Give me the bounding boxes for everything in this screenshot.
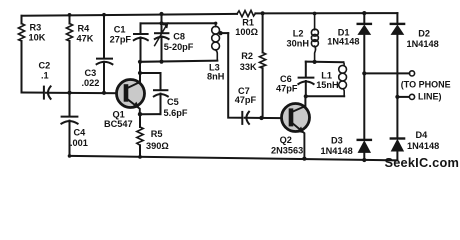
wire D2 to terminal 2 node bbox=[396, 34, 398, 97]
wire terminal 2 bbox=[397, 96, 409, 98]
wire terminal 1 bbox=[364, 72, 409, 74]
wire D4 to bottom rail corner bbox=[396, 151, 398, 161]
wire L3 tap to C7 drop bbox=[221, 32, 229, 34]
wire C5 to emitter wire bbox=[160, 94, 162, 115]
svg-text:.001: .001 bbox=[70, 138, 88, 148]
resistor R2 bbox=[260, 53, 266, 69]
svg-text:Q1: Q1 bbox=[113, 110, 125, 120]
svg-text:30nH: 30nH bbox=[287, 39, 310, 49]
wire top rail right segment bbox=[255, 12, 397, 14]
diode D2 bbox=[391, 24, 404, 34]
svg-text:R4: R4 bbox=[78, 24, 91, 34]
svg-text:R3: R3 bbox=[30, 23, 42, 33]
svg-text:D4: D4 bbox=[416, 130, 429, 140]
transistor Q1 bbox=[117, 80, 145, 115]
wire D1 to terminal node bbox=[363, 34, 365, 74]
wire base node down to C4 bbox=[69, 93, 71, 116]
wire tank bottom bbox=[140, 61, 217, 62]
junction D1 line/terminal 1 wire bbox=[362, 71, 366, 75]
wire R4 branch top bbox=[69, 15, 71, 24]
wire tank2 top bbox=[306, 61, 344, 64]
wire C6 branch upper bbox=[305, 62, 307, 77]
junction C8/tank bottom wire bbox=[159, 60, 163, 64]
svg-text:10K: 10K bbox=[29, 33, 46, 43]
junction C8/top rail bbox=[159, 12, 163, 16]
svg-text:C2: C2 bbox=[39, 61, 51, 71]
junction C3/base wire bbox=[102, 91, 106, 95]
resistor R3 bbox=[18, 24, 24, 42]
capacitor C5 bbox=[154, 90, 168, 96]
svg-text:LINE): LINE) bbox=[418, 91, 442, 101]
wire D3 to bottom rail bbox=[363, 152, 365, 160]
wire C7 vertical drop bbox=[228, 33, 241, 118]
junction Q2 base node bbox=[259, 116, 263, 120]
junction R2/top rail bbox=[261, 11, 265, 15]
resistor R2 drop from rail bbox=[262, 13, 264, 52]
wire C1 lower bbox=[140, 37, 142, 61]
wire tank2 bottom bbox=[306, 95, 344, 97]
wire tank top (node A) bbox=[141, 22, 216, 24]
svg-text:C5: C5 bbox=[167, 97, 179, 107]
junction C3/top rail bbox=[102, 13, 106, 17]
svg-text:390Ω: 390Ω bbox=[146, 141, 169, 151]
wire D1 drop from rail bbox=[363, 13, 365, 24]
resistor R4 bbox=[66, 24, 72, 42]
junction C1/tank bottom wire bbox=[138, 60, 142, 64]
junction R4-C4/base wire bbox=[67, 91, 71, 95]
junction L2 bottom/tank2 top wire bbox=[313, 60, 317, 64]
junction Q2 emitter/bottom rail bbox=[302, 157, 306, 161]
wire D2 drop (rail right corner) bbox=[396, 13, 398, 24]
junction C8/tank top wire bbox=[159, 21, 163, 25]
wire terminal2 node to D4 bbox=[396, 97, 398, 137]
svg-text:.1: .1 bbox=[41, 71, 49, 81]
junction Q2 collector/tank2 bottom wire bbox=[304, 94, 308, 98]
svg-text:1N4148: 1N4148 bbox=[407, 39, 439, 49]
svg-text:R1: R1 bbox=[242, 17, 254, 27]
svg-text:27pF: 27pF bbox=[110, 35, 132, 45]
junction D2 line/terminal 2 wire bbox=[395, 95, 399, 99]
capacitor C2 bbox=[44, 86, 51, 98]
svg-text:1N4148: 1N4148 bbox=[321, 146, 353, 156]
wire C8 rail drop bbox=[161, 14, 163, 32]
svg-text:8nH: 8nH bbox=[207, 72, 225, 82]
wire left rail lower bbox=[21, 41, 23, 93]
svg-text:C8: C8 bbox=[173, 31, 185, 41]
wire Q2 collector riser bbox=[304, 96, 306, 107]
svg-text:5.6pF: 5.6pF bbox=[164, 108, 188, 118]
junction L3 tap bbox=[219, 31, 223, 35]
svg-text:5-20pF: 5-20pF bbox=[164, 42, 194, 52]
diode D1 bbox=[358, 24, 371, 34]
svg-text:R5: R5 bbox=[151, 129, 163, 139]
wire left rail upper bbox=[21, 16, 23, 24]
junction R4/top rail bbox=[68, 13, 72, 17]
trimmer arrow of C8 bbox=[155, 23, 168, 45]
wire base wire right bbox=[46, 92, 124, 95]
capacitor C8 bbox=[155, 33, 169, 39]
capacitor C6 bbox=[298, 78, 313, 84]
resistor R1 bbox=[237, 10, 255, 16]
svg-text:D3: D3 bbox=[331, 135, 343, 145]
svg-text:C4: C4 bbox=[74, 128, 87, 138]
svg-text:2N3563: 2N3563 bbox=[271, 146, 303, 156]
wire C7 to Q2 base bbox=[245, 117, 283, 119]
transistor Q2 bbox=[282, 104, 310, 159]
wire Q1 emitter to C5 bbox=[140, 113, 161, 115]
junction C4/bottom rail corner bbox=[68, 154, 72, 158]
wire C3 branch top bbox=[103, 15, 105, 58]
svg-text:L2: L2 bbox=[293, 29, 304, 39]
junction D1/top rail bbox=[362, 11, 366, 15]
wire C3 to base wire bbox=[103, 62, 105, 93]
svg-text:47pF: 47pF bbox=[235, 95, 257, 105]
terminal circle 2 bbox=[409, 94, 414, 99]
wire top rail left segment bbox=[22, 14, 238, 16]
capacitor C3 bbox=[97, 59, 113, 65]
svg-text:SeekIC.com: SeekIC.com bbox=[385, 155, 460, 170]
svg-text:BC547: BC547 bbox=[104, 119, 133, 129]
junction D3/bottom rail bbox=[362, 158, 366, 162]
svg-text:100Ω: 100Ω bbox=[235, 27, 258, 37]
svg-text:1N4148: 1N4148 bbox=[407, 141, 439, 151]
capacitor C1 bbox=[134, 34, 148, 40]
wire C5 tap from collector bbox=[140, 73, 161, 90]
wire C8 lower bbox=[161, 36, 163, 61]
junction Q1 emitter node bbox=[138, 112, 142, 116]
junction R5/bottom rail bbox=[138, 155, 142, 159]
svg-text:L1: L1 bbox=[321, 71, 332, 81]
svg-text:R2: R2 bbox=[241, 51, 253, 61]
svg-text:C3: C3 bbox=[85, 68, 97, 78]
wire D1 node to D3 bbox=[363, 73, 365, 138]
svg-text:Q2: Q2 bbox=[280, 135, 292, 145]
terminal circle 1 bbox=[409, 71, 414, 76]
junction L2/top rail bbox=[313, 12, 317, 16]
diode D3 bbox=[358, 140, 371, 152]
inductor L1 bbox=[339, 62, 347, 96]
wire C1 upper bbox=[140, 23, 142, 33]
svg-text:C1: C1 bbox=[114, 25, 126, 35]
svg-text:15nH: 15nH bbox=[316, 80, 339, 90]
svg-text:D2: D2 bbox=[418, 29, 430, 39]
inductor L3 bbox=[212, 23, 220, 60]
svg-text:(TO PHONE: (TO PHONE bbox=[401, 79, 451, 89]
inductor L2 bbox=[311, 14, 318, 62]
wire bottom rail bbox=[70, 156, 398, 160]
wire C6 lower bbox=[305, 81, 307, 96]
capacitor C7 bbox=[242, 112, 249, 124]
svg-text:.022: .022 bbox=[82, 78, 100, 88]
svg-text:C6: C6 bbox=[280, 74, 292, 84]
svg-text:1N4148: 1N4148 bbox=[327, 37, 359, 47]
svg-text:47pF: 47pF bbox=[276, 84, 298, 94]
resistor R5 bbox=[137, 114, 143, 157]
svg-text:33K: 33K bbox=[240, 62, 257, 72]
wire base wire left bbox=[22, 92, 44, 94]
svg-text:47K: 47K bbox=[77, 34, 94, 44]
junction C5 tap/collector wire bbox=[138, 71, 142, 75]
capacitor C4 bbox=[61, 117, 77, 124]
diode D4 bbox=[391, 139, 404, 151]
wire C4 to bottom rail bbox=[69, 121, 71, 156]
wire R2 to Q2 base node bbox=[262, 68, 264, 118]
junction L3 top corner bbox=[214, 22, 217, 25]
wire collector Q1 riser bbox=[139, 62, 141, 84]
wire R4 to base node bbox=[69, 41, 71, 93]
